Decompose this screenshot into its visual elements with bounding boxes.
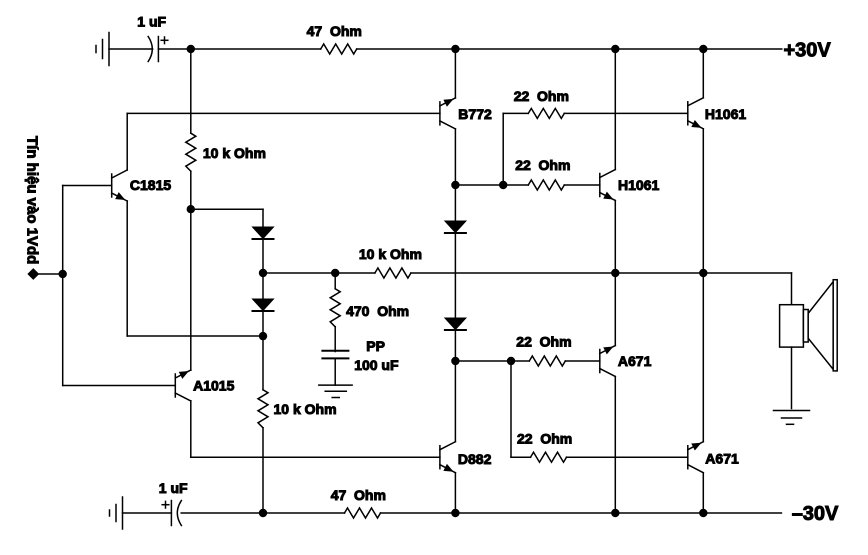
wire [511, 360, 529, 362]
transistor A671 (lower output) [688, 442, 704, 473]
label -30V [792, 503, 839, 525]
diode D3 (center bias chain) [445, 221, 466, 233]
wire (output rail) [411, 272, 792, 274]
wire (H1061 collector) [702, 49, 704, 98]
wire (C1815 collector to B772 base) [127, 112, 440, 114]
wire [123, 512, 172, 514]
transistor H1061 (upper output) [688, 98, 704, 129]
wire (A1015 emitter) [190, 209, 192, 370]
svg-text:10 k Ohm: 10 k Ohm [359, 246, 422, 262]
wire (C1815 base) [63, 185, 112, 187]
wire (C1815 emitter) [126, 201, 128, 336]
resistor 10 k Ohm (lower bias) [258, 390, 268, 428]
wire [191, 208, 263, 210]
wire [565, 360, 600, 362]
node (input terminal) [28, 269, 38, 279]
diode D1 (left bias chain) [253, 227, 274, 239]
resistor 22 Ohm (second) [528, 180, 564, 190]
wire (A671 emitter) [614, 273, 616, 346]
label 22 Ohm (1) [514, 88, 569, 104]
svg-text:A1015: A1015 [193, 377, 234, 393]
node (bottom rail / A671 collector) [611, 509, 619, 517]
label A671 (lower) [705, 450, 739, 466]
node (bottom rail / 10k) [259, 509, 267, 517]
wire [262, 428, 264, 513]
label 10 k Ohm (lower) [274, 401, 337, 417]
node [187, 205, 195, 213]
wire [109, 48, 153, 50]
svg-text:470 Ohm: 470 Ohm [346, 303, 409, 319]
svg-text:22 Ohm: 22 Ohm [516, 334, 571, 350]
node (bottom rail / A671 collector) [699, 509, 707, 517]
node (input junction) [59, 270, 67, 278]
label 100 uF [354, 357, 399, 373]
label 22 Ohm (3) [516, 334, 571, 350]
resistor 22 Ohm (third) [529, 356, 565, 366]
wire [503, 112, 528, 114]
label B772 [458, 106, 492, 122]
transistor C1815 [112, 170, 128, 201]
label H1061 (upper) [705, 106, 746, 122]
capacitor PP 100 uF [322, 351, 348, 359]
wire [564, 112, 688, 114]
node (bottom rail / D882 emitter) [451, 509, 459, 517]
svg-text:Tín hiệu vào 1Vdd: Tín hiệu vào 1Vdd [24, 136, 41, 264]
wire (+30V rail) [357, 48, 782, 50]
wire [454, 330, 456, 361]
wire [511, 456, 531, 458]
transistor A671 (lower driver) [600, 346, 616, 377]
wire [502, 113, 504, 185]
wire (speaker to ground) [791, 347, 793, 408]
label Tin hieu vao 1Vdd [24, 136, 41, 264]
wire [127, 335, 263, 337]
node (top rail / B772 emitter) [451, 45, 459, 53]
label D882 [458, 451, 492, 467]
transistor A1015 [175, 370, 191, 401]
capacitor 1 uF (top input coupling) [148, 37, 168, 62]
resistor 22 Ohm (fourth) [531, 452, 567, 462]
label 10 k Ohm (feedback) [359, 246, 422, 262]
wire [262, 273, 264, 299]
svg-text:22 Ohm: 22 Ohm [515, 157, 570, 173]
node (top rail / 10k) [187, 45, 195, 53]
svg-text:10 k Ohm: 10 k Ohm [203, 145, 266, 161]
wire (D882 collector) [454, 361, 456, 442]
wire (A1015 collector to D882 base) [191, 456, 440, 458]
node (top rail / H1061 collector) [611, 45, 619, 53]
wire (A1015 collector) [190, 401, 192, 457]
label 10 k Ohm (upper) [203, 145, 266, 161]
wire [262, 336, 264, 390]
resistor 10 k Ohm (upper bias) [186, 133, 196, 171]
wire [503, 184, 528, 186]
capacitor 1 uF (bottom coupling) [162, 501, 181, 526]
wire [158, 48, 320, 50]
wire [334, 273, 336, 289]
node (output / H1061 emitter) [611, 269, 619, 277]
label 1 uF (top) [137, 14, 166, 30]
wire (input) [33, 273, 62, 275]
transistor H1061 (upper driver) [600, 170, 616, 201]
resistor 47 Ohm (top rail) [321, 44, 357, 54]
svg-text:C1815: C1815 [130, 177, 171, 193]
wire (output rail) [263, 272, 375, 274]
label H1061 (driver) [618, 177, 659, 193]
wire (H1061 emitter) [614, 201, 616, 274]
wire [190, 171, 192, 209]
node (output / H1061 emitter) [699, 269, 707, 277]
svg-text:100 uF: 100 uF [354, 357, 399, 373]
wire [262, 209, 264, 227]
wire (B772 emitter) [454, 49, 456, 98]
wire (B772 collector) [454, 129, 456, 185]
wire [181, 512, 344, 514]
svg-text:47 Ohm: 47 Ohm [331, 487, 386, 503]
wire (C1815 collector) [126, 113, 128, 170]
wire [262, 311, 264, 336]
wire [455, 360, 511, 362]
label PP [366, 338, 385, 354]
wire (H1061 emitter) [702, 129, 704, 273]
svg-text:D882: D882 [458, 451, 492, 467]
node [451, 357, 459, 365]
svg-text:10 k Ohm: 10 k Ohm [274, 401, 337, 417]
node [451, 181, 459, 189]
label 47 Ohm (bottom) [331, 487, 386, 503]
transistor D882 [440, 442, 456, 473]
wire (H1061 collector) [614, 49, 616, 170]
svg-text:H1061: H1061 [618, 177, 659, 193]
svg-text:+30V: +30V [784, 39, 832, 61]
node [259, 332, 267, 340]
label 1 uF (bottom) [159, 480, 188, 496]
label 22 Ohm (4) [517, 431, 572, 447]
svg-text:A671: A671 [618, 353, 652, 369]
svg-text:A671: A671 [705, 450, 739, 466]
label C1815 [130, 177, 171, 193]
resistor 22 Ohm (upper driver) [528, 108, 564, 118]
wire [334, 327, 336, 352]
node (top rail / H1061 collector) [699, 45, 707, 53]
svg-text:B772: B772 [458, 106, 492, 122]
svg-text:22 Ohm: 22 Ohm [514, 88, 569, 104]
speaker [780, 280, 838, 371]
svg-text:–30V: –30V [792, 503, 839, 525]
ground (bottom coupling, bottom left) [110, 497, 123, 529]
node (output / 470 Ohm) [331, 269, 339, 277]
transistor B772 [440, 98, 456, 129]
diode D2 (left bias chain) [253, 299, 274, 311]
diode D4 (center bias chain) [445, 318, 466, 330]
wire [454, 185, 456, 221]
wire (A671 collector) [614, 377, 616, 514]
resistor 10 k Ohm (feedback) [375, 268, 411, 278]
label A671 (driver) [618, 353, 652, 369]
label 47 Ohm (top) [307, 23, 362, 39]
wire [510, 361, 512, 457]
svg-text:PP: PP [366, 338, 385, 354]
node [259, 269, 267, 277]
svg-text:H1061: H1061 [705, 106, 746, 122]
label A1015 [193, 377, 234, 393]
wire (D882 emitter) [454, 473, 456, 513]
label +30V [784, 39, 832, 61]
wire (A1015 base) [63, 385, 176, 387]
svg-text:22 Ohm: 22 Ohm [517, 431, 572, 447]
ground (speaker) [774, 411, 810, 425]
wire [262, 239, 264, 273]
svg-text:1 uF: 1 uF [159, 480, 188, 496]
svg-text:1 uF: 1 uF [137, 14, 166, 30]
ground (input coupling, top left) [96, 33, 109, 66]
resistor 470 Ohm [330, 289, 340, 327]
label 470 Ohm [346, 303, 409, 319]
wire (to speaker) [791, 273, 793, 305]
wire (A671 emitter) [702, 273, 704, 442]
svg-text:47 Ohm: 47 Ohm [307, 23, 362, 39]
wire [190, 49, 192, 133]
wire (A671 collector) [702, 473, 704, 513]
label 22 Ohm (2) [515, 157, 570, 173]
node [507, 357, 515, 365]
wire [454, 233, 456, 318]
wire [455, 184, 503, 186]
ground (PP cap) [319, 385, 352, 397]
wire [334, 358, 336, 385]
wire [564, 184, 600, 186]
wire [567, 456, 688, 458]
wire (input bus) [62, 186, 64, 386]
node [499, 181, 507, 189]
wire (-30V rail) [381, 512, 782, 514]
resistor 47 Ohm (bottom rail) [345, 508, 381, 518]
